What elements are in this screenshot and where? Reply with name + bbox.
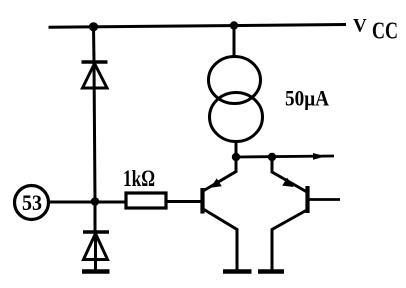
svg-text:50μA: 50μA (285, 86, 329, 111)
svg-text:V: V (353, 16, 367, 37)
svg-text:1kΩ: 1kΩ (123, 166, 155, 191)
svg-text:53: 53 (22, 190, 42, 215)
svg-text:CC: CC (372, 19, 398, 45)
